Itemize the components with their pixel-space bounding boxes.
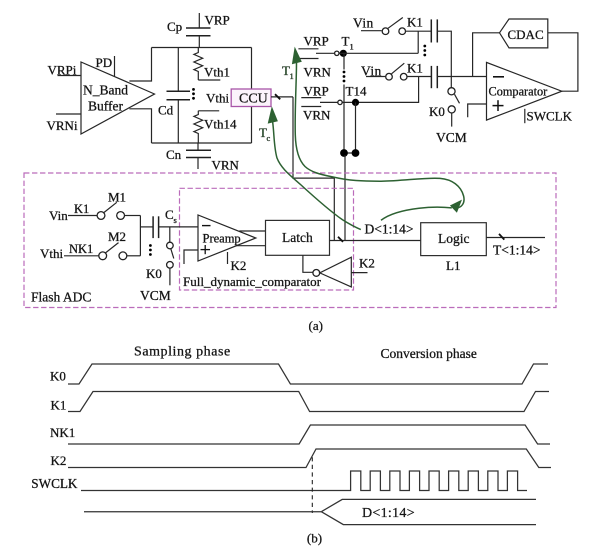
wire CDAC to input node — [473, 33, 500, 77]
svg-text:Comparator: Comparator — [489, 84, 548, 98]
inverter U5 — [313, 257, 351, 287]
wire bottom rail — [152, 142, 252, 144]
wire latch to inverter — [303, 255, 313, 272]
ellipsis dots between K1 rows — [423, 45, 426, 57]
wire K1 row2 to cap — [407, 76, 432, 78]
latch U4 — [266, 220, 330, 255]
label T1 — [342, 34, 354, 52]
green label Tc — [259, 125, 271, 143]
svg-text:Vin: Vin — [49, 208, 68, 223]
signal K0 — [50, 364, 548, 384]
svg-text:K2: K2 — [51, 453, 67, 468]
wire preamp out P — [239, 230, 265, 232]
svg-text:Flash ADC: Flash ADC — [31, 290, 91, 305]
svg-text:VCM: VCM — [436, 130, 467, 145]
green swoosh at D — [381, 207, 452, 220]
wire top rail — [152, 47, 252, 49]
wire D bus latch to logic — [330, 237, 421, 242]
green arrow T1 head — [292, 47, 302, 65]
switch K1 row1 — [382, 15, 423, 35]
label Vin row2 — [361, 64, 385, 79]
green arrow Tc head — [268, 106, 278, 123]
svg-text:Sampling phase: Sampling phase — [134, 345, 231, 360]
svg-text:K1: K1 — [74, 202, 89, 216]
svg-text:K2: K2 — [359, 256, 375, 271]
capacitor Cp — [167, 13, 211, 48]
dac CDAC — [500, 19, 548, 48]
svg-text:VRP: VRP — [304, 34, 329, 49]
op-amp U1 N_Band Buffer — [81, 62, 155, 134]
label Vthi flash — [40, 242, 99, 261]
switch K0 top-right — [429, 77, 460, 127]
svg-text:Vthi: Vthi — [40, 246, 64, 261]
Full_dynamic_comparator dashed box — [180, 188, 354, 290]
svg-text:N_Band: N_Band — [83, 83, 128, 98]
switch K0 flash — [146, 227, 174, 285]
wire T1 row — [339, 52, 418, 54]
svg-text:Full_dynamic_comparator: Full_dynamic_comparator — [183, 274, 322, 289]
pin PD — [96, 55, 115, 77]
wire M2 out — [127, 255, 141, 257]
switch M2 — [99, 229, 127, 260]
wire M1 out — [125, 215, 141, 217]
svg-text:VRP: VRP — [304, 84, 329, 99]
svg-text:K0: K0 — [50, 369, 66, 384]
svg-text:VRP: VRP — [205, 13, 230, 28]
svg-text:NK1: NK1 — [69, 242, 93, 256]
svg-text:s: s — [174, 215, 177, 225]
svg-text:1: 1 — [290, 71, 294, 81]
svg-text:Vthi: Vthi — [206, 91, 230, 106]
wire right rail to CCU — [251, 48, 253, 144]
resistor Vth1 — [194, 48, 230, 81]
svg-text:M1: M1 — [108, 190, 126, 205]
signal K1 — [51, 392, 550, 413]
switch K1 row2 — [386, 61, 423, 80]
svg-text:T: T — [342, 34, 350, 49]
wire Cs to preamp — [159, 226, 198, 228]
wire M1 M2 join — [140, 216, 153, 256]
resistor Vth14 — [194, 111, 237, 143]
capacitor Cd — [158, 48, 190, 144]
svg-text:SWCLK: SWCLK — [31, 476, 78, 491]
svg-text:L1: L1 — [446, 258, 460, 273]
capacitor sampling C1 — [431, 19, 437, 42]
svg-text:D<1:14>: D<1:14> — [362, 506, 415, 521]
svg-text:VCM: VCM — [140, 288, 171, 303]
wire T14 row — [342, 77, 418, 103]
wire T1 tap vertical — [417, 31, 419, 53]
green label T1 — [282, 63, 294, 81]
wire K1 row1 to cap — [405, 30, 431, 32]
node T14 junction dot — [352, 99, 359, 106]
svg-text:PD: PD — [96, 55, 113, 70]
svg-text:Vin: Vin — [353, 16, 374, 31]
Flash ADC dashed box — [24, 173, 556, 308]
pin SWCLK — [525, 109, 573, 124]
node T1 : VRP contact — [298, 34, 328, 49]
switch M1 — [97, 190, 126, 220]
signal SWCLK — [31, 471, 527, 491]
svg-text:c: c — [267, 133, 271, 143]
svg-text:D<1:14>: D<1:14> — [365, 222, 414, 237]
svg-text:(b): (b) — [307, 531, 322, 546]
wire preamp out N — [236, 245, 266, 247]
label Vin flash — [49, 202, 97, 223]
preamp U3 — [198, 215, 256, 261]
wire inverter input K2 — [351, 256, 375, 273]
green curve T1 from D to switches — [295, 62, 464, 209]
wire CCU feedback path to D bus — [293, 97, 334, 241]
wire T14 bus vertical — [355, 102, 357, 153]
svg-text:NK1: NK1 — [50, 425, 75, 440]
svg-text:Cd: Cd — [158, 103, 174, 118]
wire T output — [486, 234, 545, 258]
capacitor sampling C14 — [431, 66, 437, 88]
pin K2 preamp — [228, 252, 247, 273]
node T1 junction dot — [340, 50, 347, 57]
svg-text:CCU: CCU — [239, 92, 268, 107]
green curve Tc from D to CCU — [273, 122, 361, 230]
svg-text:SWCLK: SWCLK — [527, 109, 573, 124]
capacitor Cs — [153, 207, 177, 238]
node T14 : VRN contact overlined — [301, 107, 331, 123]
wire preamp plus stub — [184, 250, 198, 264]
wire VRPi input — [48, 63, 82, 78]
svg-text:VRN: VRN — [303, 108, 331, 123]
wire C1 to node — [437, 31, 451, 76]
svg-text:K1: K1 — [407, 15, 423, 30]
svg-text:K2: K2 — [231, 258, 247, 273]
svg-text:Logic: Logic — [438, 231, 470, 246]
node bus merge dots — [340, 149, 359, 157]
wire comparator plus stub — [468, 104, 487, 117]
ellipsis dots Cd array — [192, 88, 195, 100]
svg-text:K1: K1 — [407, 61, 423, 76]
node T1 : VRN contact — [298, 59, 331, 80]
svg-text:K0: K0 — [146, 266, 162, 281]
svg-text:VRPi: VRPi — [48, 63, 77, 78]
wire bus down to D wire — [344, 155, 346, 241]
wire buffer output P — [129, 48, 151, 82]
svg-text:Cn: Cn — [166, 147, 182, 162]
svg-text:Cp: Cp — [167, 19, 182, 34]
signal NK1 — [50, 425, 550, 444]
node T14 : VRP contact overlined — [301, 84, 328, 99]
svg-text:Preamp: Preamp — [203, 232, 241, 246]
svg-text:VRN: VRN — [212, 158, 240, 173]
ellipsis dots Cs array — [149, 244, 152, 256]
svg-text:K0: K0 — [429, 104, 445, 119]
svg-text:VRN: VRN — [304, 65, 332, 80]
signal K2 — [51, 449, 552, 468]
svg-text:(a): (a) — [309, 318, 323, 333]
wire buffer output N — [129, 109, 151, 143]
green big arrowhead — [450, 200, 462, 213]
svg-text:Latch: Latch — [282, 230, 313, 245]
logic L1 — [421, 223, 487, 273]
wire T1 bus vertical — [343, 53, 345, 153]
label Vin row1 — [353, 16, 382, 31]
wire CCU output bus — [271, 94, 293, 99]
ellipsis dots T bus — [343, 71, 346, 83]
signal D bus — [84, 499, 536, 524]
controller CCU — [231, 89, 271, 107]
svg-text:Conversion phase: Conversion phase — [381, 346, 477, 361]
svg-text:Vth14: Vth14 — [204, 117, 237, 132]
svg-text:T14: T14 — [346, 84, 367, 99]
comparator U2 — [487, 62, 562, 120]
wire comparator minus input — [437, 76, 486, 78]
svg-text:T<1:14>: T<1:14> — [493, 243, 540, 258]
svg-text:Vth1: Vth1 — [204, 65, 230, 80]
svg-text:VRNi: VRNi — [47, 118, 78, 133]
svg-text:Buffer: Buffer — [88, 99, 123, 114]
svg-text:CDAC: CDAC — [508, 27, 544, 42]
svg-text:C: C — [165, 207, 174, 222]
wire comparator output feedback — [548, 33, 578, 91]
switch T1 pole — [316, 51, 339, 55]
switch T14 pole — [320, 100, 342, 104]
svg-text:M2: M2 — [108, 229, 126, 244]
svg-text:K1: K1 — [51, 398, 67, 413]
svg-text:1: 1 — [350, 42, 354, 52]
wire VRNi input — [47, 114, 82, 133]
phase boundary dashed line — [311, 457, 313, 513]
capacitor Cn — [166, 143, 211, 169]
